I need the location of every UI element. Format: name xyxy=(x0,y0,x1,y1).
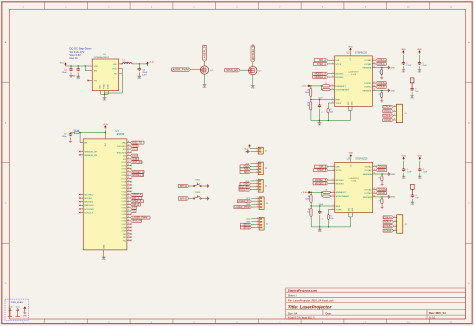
connector J7 motor output xyxy=(397,215,403,233)
svg-text:6.3V: 6.3V xyxy=(142,75,147,77)
svg-text:9: 9 xyxy=(128,154,129,156)
svg-text:DIR_A: DIR_A xyxy=(319,59,326,62)
svg-text:SCK/CLK: SCK/CLK xyxy=(84,212,94,214)
pins GND bottom U3 xyxy=(348,213,350,216)
svg-text:TOFF: TOFF xyxy=(336,209,342,211)
svg-text:9: 9 xyxy=(128,197,129,199)
svg-text:COILA-: COILA- xyxy=(378,169,386,172)
svg-text:12: 12 xyxy=(373,82,375,84)
svg-text:1: 1 xyxy=(395,216,396,218)
svg-text:StanleyProjects.com: StanleyProjects.com xyxy=(288,289,318,293)
svg-text:GND: GND xyxy=(391,67,396,69)
connector J2 power in xyxy=(258,147,263,154)
svg-text:9: 9 xyxy=(128,193,129,195)
svg-text:2.2uF: 2.2uF xyxy=(407,171,413,173)
wire EN tie xyxy=(85,66,88,71)
svg-text:9: 9 xyxy=(128,180,129,182)
svg-text:9: 9 xyxy=(128,213,129,215)
svg-text:1: 1 xyxy=(333,165,334,167)
svg-text:8: 8 xyxy=(333,208,334,210)
ground cap1 U2 xyxy=(402,68,405,71)
ESP32 flash pins with no-connects xyxy=(79,194,94,215)
wire L1 to output node xyxy=(132,63,148,65)
svg-text:STSPIN220: STSPIN220 xyxy=(355,159,368,161)
wire enable rail U2 xyxy=(310,85,321,87)
svg-text:SW: SW xyxy=(113,64,116,66)
svg-text:OUTB2: OUTB2 xyxy=(364,87,372,89)
svg-text:VIN: VIN xyxy=(94,66,98,68)
svg-text:SDI/SD1: SDI/SD1 xyxy=(84,198,93,200)
svg-text:OUTA2: OUTA2 xyxy=(364,63,372,66)
svg-text:STBY/RESET: STBY/RESET xyxy=(336,196,350,198)
ESP32 pin SENSOR_VN no-connect xyxy=(80,154,83,156)
left pins of U3 xyxy=(331,165,350,211)
svg-text:9: 9 xyxy=(128,148,129,150)
power +3.3v at J6 pin1 xyxy=(251,218,255,220)
svg-text:11: 11 xyxy=(374,173,376,175)
wire TOFF network U3 xyxy=(329,208,332,210)
transistor Q2 motor MOSFET xyxy=(249,66,257,74)
svg-text:7: 7 xyxy=(333,205,334,207)
svg-text:EN/FAULT: EN/FAULT xyxy=(336,85,347,88)
wire Q1 source to ground xyxy=(204,74,206,83)
ground at J2 pin2 xyxy=(251,151,255,153)
svg-text:1k: 1k xyxy=(307,211,309,213)
svg-text:KiCad E.D.A. kicad (6.0.7): KiCad E.D.A. kicad (6.0.7) xyxy=(288,317,315,320)
svg-text:VCC: VCC xyxy=(245,148,250,150)
svg-text:IO17_RX: IO17_RX xyxy=(132,162,142,164)
global label COILB+ OUTB1 xyxy=(376,82,387,85)
svg-text:EN/FAULT: EN/FAULT xyxy=(336,191,347,194)
ESP32 pin EN xyxy=(80,142,83,144)
svg-text:+3.3v: +3.3v xyxy=(8,307,13,309)
svg-text:Date:: Date: xyxy=(326,311,332,315)
svg-text:OUTA2: OUTA2 xyxy=(364,169,372,172)
ground below C1 xyxy=(69,74,73,77)
svg-text:MODE3: MODE3 xyxy=(336,180,345,182)
svg-text:IO23_TX: IO23_TX xyxy=(132,142,142,145)
svg-text:9: 9 xyxy=(128,174,129,176)
power symbol +3.3v output xyxy=(147,62,149,65)
svg-text:GND: GND xyxy=(103,244,105,249)
svg-text:5: 5 xyxy=(332,84,333,86)
wire SW2 to ground xyxy=(201,198,206,200)
svg-text:SPIN_EN: SPIN_EN xyxy=(132,221,142,223)
svg-text:2: 2 xyxy=(332,62,333,64)
wire GND pins to rail U2 xyxy=(349,109,351,120)
svg-text:9: 9 xyxy=(128,187,129,189)
ESP32 pin SENSOR_VP no-connect xyxy=(80,151,83,153)
svg-text:COILB+: COILB+ xyxy=(378,188,387,191)
ground below C7 xyxy=(70,137,72,140)
capacitor C2 input xyxy=(77,66,79,68)
capacitor 1uF V1P8 U3 xyxy=(411,184,415,194)
svg-text:GND: GND xyxy=(391,197,396,199)
resistor 100k REF divider U3 xyxy=(310,192,312,193)
svg-text:STCK: STCK xyxy=(336,170,342,172)
svg-text:COILA+: COILA+ xyxy=(383,106,392,109)
svg-text:COILA-: COILA- xyxy=(384,110,392,113)
right pins of U3 xyxy=(363,165,376,199)
svg-text:SW1: SW1 xyxy=(195,179,201,181)
svg-text:TXD0/IO1: TXD0/IO1 xyxy=(117,146,127,148)
wire VOS feedback loop xyxy=(105,68,123,93)
svg-text:9: 9 xyxy=(128,184,129,186)
ground below C2 xyxy=(76,75,80,78)
junction output node xyxy=(139,63,140,64)
svg-text:9: 9 xyxy=(128,210,129,212)
global label BTN1 xyxy=(178,184,189,187)
svg-text:SCS/CMD: SCS/CMD xyxy=(84,209,94,211)
svg-text:3: 3 xyxy=(394,114,395,116)
svg-text:Sheet: /: Sheet: / xyxy=(288,294,297,298)
svg-text:9: 9 xyxy=(128,200,129,202)
transistor Q1 laser MOSFET xyxy=(200,66,208,74)
svg-text:VCC: VCC xyxy=(16,307,21,309)
svg-text:10uF: 10uF xyxy=(62,72,68,74)
power symbol VCC input xyxy=(65,63,67,66)
sense resistor B U3 xyxy=(376,196,387,198)
wire BTN2 to SW2 xyxy=(189,198,194,200)
svg-text:GND: GND xyxy=(23,316,28,318)
svg-text:4: 4 xyxy=(394,119,395,121)
wire VDD to VS pin U3 xyxy=(350,158,352,159)
power symbol +3.3v for ESP32 xyxy=(105,126,107,129)
svg-text:R1 10k: R1 10k xyxy=(74,130,80,132)
wire REF node U2 xyxy=(310,97,312,99)
power flag +3.3v xyxy=(9,308,11,316)
ground below C3 xyxy=(137,75,141,78)
svg-text:2: 2 xyxy=(333,169,334,171)
svg-text:Title: LaserProjector: Title: LaserProjector xyxy=(288,304,332,309)
capacitor C3 output 22uF xyxy=(138,64,140,67)
label LASER_PWM at J5 pin4 xyxy=(251,206,255,208)
svg-text:DIR_B: DIR_B xyxy=(132,203,139,206)
svg-text:LASER_PWM: LASER_PWM xyxy=(171,68,189,72)
svg-text:9: 9 xyxy=(128,216,129,218)
capacitor 22uF VDD U2 xyxy=(419,51,421,54)
svg-text:BTN2: BTN2 xyxy=(180,197,188,201)
svg-text:9: 9 xyxy=(128,239,129,241)
ground cap2 U2 xyxy=(418,68,421,71)
svg-text:COILA+: COILA+ xyxy=(377,59,386,62)
resistor STBY pullup U2 xyxy=(321,89,322,91)
svg-text:3: 3 xyxy=(333,179,334,181)
svg-text:SENSOR_VP: SENSOR_VP xyxy=(84,151,97,153)
power +3.3v at J4 pin1 xyxy=(251,180,255,182)
wire SW1 to ground xyxy=(201,185,206,187)
svg-text:SPIN_EN: SPIN_EN xyxy=(226,68,238,72)
svg-text:9: 9 xyxy=(128,190,129,192)
wire REF node U3 xyxy=(310,204,312,206)
svg-text:7: 7 xyxy=(332,98,333,100)
global label DIR_A xyxy=(314,59,328,62)
svg-text:10: 10 xyxy=(373,62,375,64)
svg-text:EN: EN xyxy=(94,71,97,73)
svg-text:COILB-: COILB- xyxy=(384,230,392,233)
svg-text:1: 1 xyxy=(394,105,395,107)
svg-text:PG: PG xyxy=(94,80,97,82)
svg-text:2: 2 xyxy=(394,110,395,112)
svg-text:VDD: VDD xyxy=(401,49,406,51)
svg-text:0.00A: 0.00A xyxy=(351,179,357,182)
svg-text:LASER_PWM: LASER_PWM xyxy=(132,216,147,219)
svg-text:100k: 100k xyxy=(305,198,309,200)
svg-text:2: 2 xyxy=(256,150,257,152)
svg-text:DIR: DIR xyxy=(336,167,340,169)
PWR_FLAG annotation box xyxy=(5,299,29,320)
svg-text:9: 9 xyxy=(128,171,129,173)
svg-text:STEP_B: STEP_B xyxy=(317,169,327,172)
wire enable rail U3 xyxy=(311,191,322,193)
connector J5 laser header xyxy=(259,197,264,210)
resistor EN pullup U2 xyxy=(321,85,322,87)
svg-text:SENSOR_VN: SENSOR_VN xyxy=(84,155,97,157)
svg-text:3: 3 xyxy=(256,168,257,170)
svg-text:BTN2: BTN2 xyxy=(244,226,251,229)
pins GND PGND AGND xyxy=(100,91,102,95)
svg-text:14: 14 xyxy=(373,89,375,91)
svg-text:STBY/RESET: STBY/RESET xyxy=(336,90,350,92)
global label COILB+ OUTB1 xyxy=(376,188,387,191)
junction input node xyxy=(70,65,71,66)
svg-text:MODE2_A: MODE2_A xyxy=(315,76,327,79)
svg-text:TPS62A02DRL2: TPS62A02DRL2 xyxy=(94,56,110,59)
pin EN xyxy=(89,70,93,72)
resistor 100k REF divider U2 xyxy=(310,86,312,87)
wire FB stub xyxy=(121,73,123,75)
svg-text:REF: REF xyxy=(336,100,341,102)
wire +3.3v to 3V3 pin xyxy=(104,130,106,136)
resistor TOFF U2 xyxy=(327,107,329,108)
pins GND bottom U2 xyxy=(348,106,350,109)
svg-text:3: 3 xyxy=(256,185,257,187)
labels at J5 pins xyxy=(251,200,255,202)
pin SW xyxy=(119,63,123,65)
pin PG with no-connect xyxy=(89,80,93,82)
global label COILB- OUTB2 xyxy=(376,85,387,88)
svg-text:10: 10 xyxy=(373,169,375,171)
ground rail U2 ref network xyxy=(311,120,350,122)
title block outline xyxy=(286,288,466,319)
left pins of U2 xyxy=(331,59,350,105)
svg-text:REF: REF xyxy=(336,206,341,208)
svg-text:OUTA1: OUTA1 xyxy=(364,59,372,62)
ground below Q2 xyxy=(251,84,255,87)
global label MODE1_B xyxy=(313,179,328,182)
right pins of U2 xyxy=(362,59,375,93)
ground cap3 U3 xyxy=(411,201,414,204)
svg-text:MODE4: MODE4 xyxy=(336,183,345,185)
wire Q1 gate xyxy=(190,69,200,71)
svg-text:SENSEA: SENSEA xyxy=(362,67,371,70)
ground sense A U2 xyxy=(387,66,390,70)
svg-text:Iout 1A: Iout 1A xyxy=(70,56,78,60)
svg-text:SENSEA: SENSEA xyxy=(363,173,372,176)
svg-text:1: 1 xyxy=(332,59,333,61)
power text VCC at J5 pin1 xyxy=(251,197,255,199)
svg-text:2.2uF: 2.2uF xyxy=(406,65,412,67)
connector J6 buttons header xyxy=(259,217,264,230)
ground below U1 xyxy=(103,96,107,99)
sense resistor A U3 xyxy=(376,173,387,175)
svg-text:SENSEB: SENSEB xyxy=(362,90,371,92)
svg-text:1: 1 xyxy=(256,162,257,164)
capacitor 2.2uF VDD U2 xyxy=(403,51,405,54)
ground cap1 U3 xyxy=(402,175,405,178)
global label STEP_A xyxy=(313,62,328,65)
svg-text:NC: NC xyxy=(123,240,127,242)
global label MODE2_B xyxy=(313,182,328,185)
svg-text:10k: 10k xyxy=(330,111,333,113)
ground right of SW1 xyxy=(206,184,209,188)
svg-text:GND: GND xyxy=(245,151,250,153)
svg-text:VDD: VDD xyxy=(348,46,353,48)
svg-text:VDD: VDD xyxy=(417,49,422,51)
global label SPIN_PWM to Q2 gate xyxy=(225,69,240,72)
svg-text:GND: GND xyxy=(391,90,396,92)
svg-text:5: 5 xyxy=(333,191,334,193)
capacitor REF filter U3 xyxy=(319,206,321,210)
svg-text:VOS: VOS xyxy=(112,68,117,70)
wire Q2 drain xyxy=(252,62,254,66)
svg-text:6: 6 xyxy=(333,195,334,197)
connector J4 UART header xyxy=(258,180,263,193)
svg-text:1: 1 xyxy=(256,147,257,149)
svg-text:9: 9 xyxy=(128,226,129,228)
capacitor 22uF VDD U3 xyxy=(419,157,421,160)
svg-text:COILB+: COILB+ xyxy=(377,82,386,85)
ground sense B U3 xyxy=(387,195,390,199)
svg-text:MODE1_A: MODE1_A xyxy=(132,174,144,177)
svg-text:8: 8 xyxy=(332,102,333,104)
ground sense B U2 xyxy=(387,89,390,93)
svg-text:RXD0/IO3: RXD0/IO3 xyxy=(117,152,127,154)
svg-text:COILB+: COILB+ xyxy=(383,115,392,118)
svg-text:9: 9 xyxy=(128,233,129,235)
ESP32 right side pins with labels xyxy=(117,141,150,242)
wire Q2 gate xyxy=(240,69,248,71)
global label DIR_B xyxy=(315,165,329,168)
svg-text:NC: NC xyxy=(123,237,127,239)
labels at J3 pins xyxy=(251,165,255,167)
svg-text:2: 2 xyxy=(256,182,257,184)
svg-text:NC: NC xyxy=(123,234,127,236)
svg-text:100k: 100k xyxy=(305,92,309,94)
svg-text:SHD/SD2: SHD/SD2 xyxy=(84,202,94,204)
svg-text:9: 9 xyxy=(374,165,375,167)
svg-text:13: 13 xyxy=(373,85,375,87)
wire VDD to VS pin U2 xyxy=(350,51,352,52)
svg-text:9: 9 xyxy=(128,203,129,205)
wire ESP32 ground xyxy=(103,253,105,255)
svg-text:MOTOR_5V: MOTOR_5V xyxy=(251,44,255,60)
ground sense A U3 xyxy=(387,172,390,176)
svg-text:4: 4 xyxy=(333,182,334,184)
svg-text:0.00A: 0.00A xyxy=(351,73,357,76)
svg-text:9: 9 xyxy=(128,206,129,208)
svg-text:SW2: SW2 xyxy=(195,192,201,194)
svg-text:OUTA1: OUTA1 xyxy=(364,166,372,169)
svg-text:Id: 1/1: Id: 1/1 xyxy=(429,318,436,320)
capacitor C1 bulk input xyxy=(70,66,72,68)
wire STBY tie U3 xyxy=(321,192,323,196)
svg-text:STEP_A: STEP_A xyxy=(317,63,327,66)
svg-text:STSPIN220: STSPIN220 xyxy=(355,52,368,54)
svg-text:6: 6 xyxy=(332,88,333,90)
svg-text:VDD: VDD xyxy=(418,155,423,157)
global label MOTOR vertical above Q2 xyxy=(251,44,255,62)
wire R1 to EN xyxy=(79,133,81,143)
global label COILA- OUTA2 xyxy=(376,62,387,65)
svg-text:COILA-: COILA- xyxy=(384,221,392,224)
svg-text:File: LaserProjector_REV_04.ki: File: LaserProjector_REV_04.kicad_sch xyxy=(288,299,334,303)
power +3.3v at J3 pin1 xyxy=(251,163,255,165)
svg-text:LASER_5V: LASER_5V xyxy=(203,45,207,60)
svg-text:BTN1: BTN1 xyxy=(180,184,188,188)
global label COILA- OUTA2 xyxy=(376,169,387,172)
svg-text:OUTB1: OUTB1 xyxy=(364,83,372,85)
resistor R1 10k EN pullup xyxy=(73,132,74,134)
ground text at J6 pin2 xyxy=(251,221,255,223)
svg-text:3V3: 3V3 xyxy=(105,143,107,146)
svg-text:9: 9 xyxy=(128,158,129,160)
svg-text:1: 1 xyxy=(256,180,257,182)
resistor STBY pullup U3 xyxy=(322,195,323,197)
labels to J1 xyxy=(383,105,397,122)
svg-text:DIR: DIR xyxy=(336,60,340,62)
pin VOS xyxy=(119,67,123,69)
svg-text:9: 9 xyxy=(128,141,129,143)
sense resistor A U2 xyxy=(376,67,387,69)
svg-text:MODE2_B: MODE2_B xyxy=(315,182,327,185)
svg-text:PGND: PGND xyxy=(104,83,106,89)
connector J3 I2C header xyxy=(258,162,263,175)
svg-text:GND: GND xyxy=(391,174,396,176)
svg-text:LASER_5V: LASER_5V xyxy=(238,200,250,203)
svg-text:9: 9 xyxy=(128,177,129,179)
svg-text:VCC: VCC xyxy=(60,63,65,65)
svg-text:SENSEB: SENSEB xyxy=(363,197,372,199)
svg-text:IO2: IO2 xyxy=(132,211,135,213)
svg-text:9: 9 xyxy=(128,164,129,166)
svg-text:9: 9 xyxy=(128,167,129,169)
svg-text:MODE4: MODE4 xyxy=(336,77,345,79)
global label LASER vertical above Q1 xyxy=(203,45,207,62)
global label COILB- OUTB2 xyxy=(376,192,387,195)
svg-text:VDD: VDD xyxy=(349,153,354,155)
svg-text:22uF: 22uF xyxy=(142,72,148,74)
svg-text:COILB-: COILB- xyxy=(378,192,386,195)
svg-text:TOFF: TOFF xyxy=(336,103,342,105)
power flag VCC xyxy=(17,308,19,316)
svg-text:11: 11 xyxy=(373,66,375,68)
svg-text:IO18: IO18 xyxy=(132,158,138,161)
ground cap3 U2 xyxy=(410,94,413,97)
svg-text:COILB-: COILB- xyxy=(377,86,385,89)
svg-text:3: 3 xyxy=(395,225,396,227)
power text VCC at J2 pin1 xyxy=(250,148,255,150)
svg-text:2: 2 xyxy=(395,220,396,222)
svg-text:4: 4 xyxy=(256,171,257,173)
svg-text:9: 9 xyxy=(128,219,129,221)
pin VIN xyxy=(89,65,93,67)
global label MODE1_A xyxy=(313,72,328,75)
svg-text:LASER_PWM: LASER_PWM xyxy=(235,206,250,209)
wire Q2 source to ground xyxy=(252,75,254,84)
wire GND pins to rail U3 xyxy=(349,216,351,227)
ground U2 ref network xyxy=(319,120,321,123)
